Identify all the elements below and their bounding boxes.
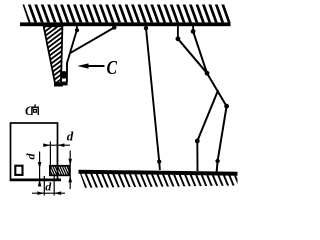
block hatch (45, 165, 74, 177)
tie bar (146, 28, 160, 170)
block outline (50, 166, 69, 176)
left vertical dimension (39, 152, 41, 187)
arrow C head (77, 63, 88, 68)
rod washer block (60, 71, 66, 78)
hanger stub A2 (192, 26, 194, 30)
pin A (176, 36, 181, 41)
svg-text:d: d (24, 153, 38, 160)
rod top stub (76, 26, 78, 30)
big square outline (11, 123, 58, 180)
column bottom end plate (54, 83, 63, 87)
width dimension line d (43, 144, 70, 146)
pin A2 (191, 29, 196, 34)
big square bottom thick edge (10, 179, 61, 182)
floor surface line (79, 170, 238, 176)
hanger stub A (177, 26, 179, 38)
pin C joint (224, 104, 229, 109)
svg-text:d: d (45, 179, 52, 193)
bar A-B (178, 39, 207, 73)
bar C-E-floor (217, 106, 227, 172)
pin D (195, 139, 200, 144)
floor hatch band (74, 172, 246, 189)
svg-text:C: C (25, 104, 34, 118)
pin tie bottom (157, 160, 161, 164)
bar D-floor (196, 141, 198, 171)
diagonal strut (71, 28, 115, 53)
pin E (215, 159, 219, 163)
svg-text:C: C (107, 58, 118, 79)
glyph xiang (32, 104, 38, 115)
bar B-C (207, 73, 227, 106)
ceiling hatch band (16, 4, 249, 24)
extension line left (49, 142, 51, 167)
pin at strut ceiling end (112, 25, 116, 29)
arrow C shaft (86, 65, 105, 67)
extension line right (square edge) (56, 142, 58, 167)
bar A2-B (193, 31, 207, 73)
column outline (44, 26, 63, 83)
svg-text:d: d (67, 129, 74, 144)
pin B (205, 71, 210, 76)
right vertical dimension (69, 151, 71, 190)
ceiling surface line (20, 22, 231, 26)
tie top stub (145, 26, 147, 29)
bar T-D (197, 90, 218, 141)
rod lower plate (60, 82, 67, 86)
small square hole (15, 166, 22, 175)
hanger rod (67, 30, 77, 83)
pin tie top (144, 26, 148, 30)
column body hatch (38, 4, 70, 102)
bottom dimension (43, 176, 45, 196)
pin on rod top (75, 28, 79, 32)
